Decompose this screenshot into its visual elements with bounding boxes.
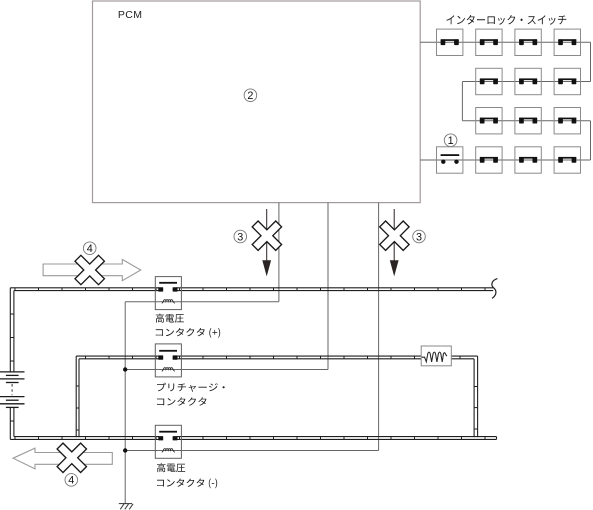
wire contactor(+) coil horizontal [125,301,279,303]
label プリチャージ・ (precharge line1) [157,383,225,392]
interlock switch SW9 (closed contact) [515,108,541,134]
wire contactor(-) coil horizontal [125,450,378,452]
interlock switch SW3 (closed contact) [515,29,541,55]
label コンタクタ (precharge line2) [157,397,207,405]
svg-text:4: 4 [68,475,74,487]
signal arrow 3 left (down) [266,209,268,262]
X cross over arrow 3 right [380,221,409,250]
label コンタクタ (+) (contactor + line2) [156,328,221,338]
wire PCM to interlock row1 [420,41,590,43]
wire PCM to precharge coil vertical [327,203,329,370]
node 4 (circled) top [83,242,96,255]
interlock switch SW12 (closed contact) [476,147,502,173]
wire PCM to contactor(-) coil vertical [378,203,380,451]
precharge bus horizontal [76,355,159,357]
interlock switch SW2 (closed contact) [476,29,502,55]
junction dot contactor(-) coil / ground rail [123,448,127,452]
wire left connector row2-row3 [461,82,463,121]
node 3 (circled) left [234,230,247,243]
junction dot precharge coil / ground rail [123,367,127,371]
svg-text:1: 1 [448,135,454,147]
node 3 (circled) right [413,230,426,243]
interlock switch SW8 (closed contact) [476,108,502,134]
HV bus left vertical lower (battery-) [9,407,11,439]
X cross over arrow 4 bottom [57,443,86,472]
wire common ground rail vertical [124,302,126,504]
label コンタクタ (-) (contactor - line2) [157,479,217,489]
HV bus top horizontal (battery+ to squiggle) [10,287,159,289]
contactor box: precharge contactor (relay K2) [155,344,181,377]
wire precharge coil horizontal [125,369,328,371]
wire right connector row1-row2 [590,42,592,81]
precharge bus right vertical (resistor leg) [477,356,479,437]
X cross over arrow 3 left [252,221,281,250]
node 4 (circled) bottom [65,474,78,487]
contactor box: high-voltage contactor (-) (relay K3) [155,425,181,458]
interlock switch SW7 (closed contact) [554,68,580,94]
block arrow 4 left (current path) [13,448,112,469]
interlock switch SW11 (open contact) [437,147,463,173]
svg-text:2: 2 [247,90,253,102]
wire interlock row2 [462,81,590,83]
interlock switch SW4 (closed contact) [554,29,580,55]
precharge bus left vertical [75,356,77,437]
interlock switch SW13 (closed contact) [515,147,541,173]
X cross over arrow 4 top [75,255,104,284]
block arrow 4 right (current path) [43,259,141,280]
HV bus bottom horizontal [14,436,159,438]
svg-text:PCM: PCM [118,9,143,21]
wire interlock row3 [462,120,590,122]
HV bus left vertical upper (battery+) [9,288,11,372]
interlock switch SW10 (closed contact) [554,108,580,134]
svg-text:4: 4 [87,243,93,255]
wire PCM to contactor(+) coil vertical [278,203,280,302]
ground (chassis) [119,504,133,510]
HV bus top break squiggle [492,279,498,299]
interlock switch SW14 (closed contact) [554,147,580,173]
wire right connector row3-row4 [590,121,592,160]
node 2 (circled) inside PCM [244,89,257,102]
interlock switch SW5 (closed contact) [476,68,502,94]
interlock switch SW6 (closed contact) [515,68,541,94]
contactor box: high-voltage contactor (+) (relay K1) [155,277,181,310]
resistor R (precharge) [421,346,451,366]
svg-text:3: 3 [237,231,243,243]
node 1 (circled) above open switch [444,134,457,147]
label 高電圧 (contactor + line1) [156,314,184,323]
svg-text:3: 3 [416,231,422,243]
label 高電圧 (contactor - line1) [157,463,185,472]
label interlock switch (インターロック・スイッチ) [446,15,566,25]
HV battery (multi-cell) [0,372,25,408]
wire interlock row4 to PCM [420,159,590,161]
PCM module box [93,1,421,203]
signal arrow 3 right (down) [393,209,395,262]
interlock switch SW1 (closed contact) [437,29,463,55]
